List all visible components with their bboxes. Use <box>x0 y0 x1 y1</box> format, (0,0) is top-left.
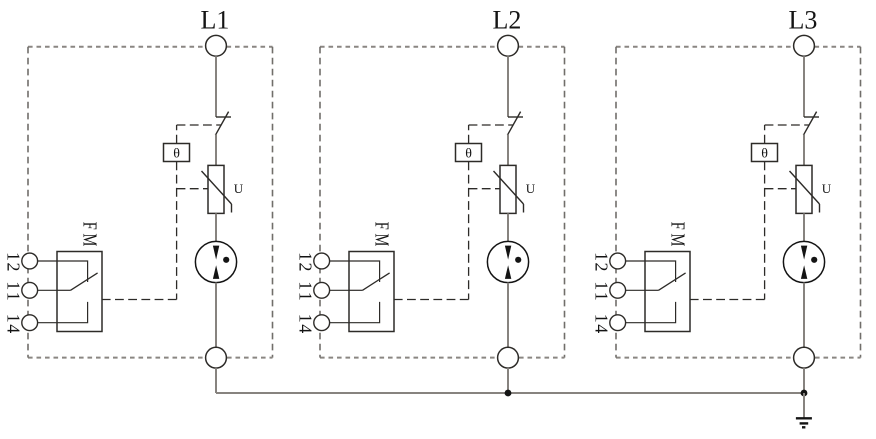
wire (bottom terminal to PE bus) <box>215 368 217 393</box>
svg-text:L2: L2 <box>493 6 522 35</box>
terminal 14 phase 3 <box>610 315 645 331</box>
remote signalling changeover contact FM phase 3 <box>645 252 690 332</box>
wire (bottom terminal to PE bus) <box>507 368 509 393</box>
wire (gas discharge tube to bottom terminal) <box>507 283 509 348</box>
wire (top terminal to disconnector) <box>507 56 509 117</box>
remote signalling changeover contact FM phase 2 <box>349 252 394 332</box>
wire (gas discharge tube to bottom terminal) <box>803 283 805 348</box>
varistor (MOV) phase 1 <box>202 165 232 213</box>
thermal sensing element θ phase 1 <box>164 144 190 162</box>
gas discharge tube (spark gap) phase 3 <box>783 241 824 282</box>
svg-text:11: 11 <box>592 281 612 301</box>
contact 12 fixed terminal (inside FM box) <box>57 261 88 282</box>
svg-text:U: U <box>526 181 536 196</box>
terminal 11 phase 1 <box>22 282 57 298</box>
wire (varistor to gas discharge tube) <box>215 213 217 242</box>
linkage (theta to disconnector, dashed) <box>469 125 514 144</box>
terminal 12 phase 3 <box>610 253 645 269</box>
svg-text:U: U <box>822 181 832 196</box>
svg-text:θ: θ <box>465 147 472 162</box>
linkage (theta to FM contact, dashed) <box>394 162 469 300</box>
linkage (theta to FM contact, dashed) <box>690 162 765 300</box>
contact 12 fixed terminal (inside FM box) <box>645 261 676 282</box>
svg-text:14: 14 <box>4 314 24 334</box>
terminal phase 1 (bottom) <box>206 347 227 368</box>
linkage (theta to disconnector, dashed) <box>177 125 222 144</box>
terminal phase 3 (bottom) <box>794 347 815 368</box>
svg-text:14: 14 <box>592 314 612 334</box>
terminal 12 phase 1 <box>22 253 57 269</box>
gas discharge tube (spark gap) phase 1 <box>195 241 236 282</box>
junction (L3 to PE bus) <box>801 390 808 397</box>
linkage (theta to FM contact, dashed) <box>102 162 177 300</box>
wire (bottom terminal to PE bus) <box>803 368 805 393</box>
svg-text:L3: L3 <box>789 6 818 35</box>
linkage (theta to varistor, dashed) <box>469 188 500 190</box>
varistor (MOV) phase 3 <box>790 165 820 213</box>
linkage (theta to varistor, dashed) <box>177 188 208 190</box>
wire (gas discharge tube to bottom terminal) <box>215 283 217 348</box>
varistor (MOV) phase 2 <box>494 165 524 213</box>
svg-text:U: U <box>234 181 244 196</box>
svg-text:14: 14 <box>296 314 316 334</box>
contact 11 common terminal (inside FM box) <box>57 289 71 291</box>
thermal sensing element θ phase 2 <box>456 144 482 162</box>
wire (top terminal to disconnector) <box>215 56 217 117</box>
contact 14 fixed terminal (inside FM box) <box>645 302 676 323</box>
terminal phase 2 (bottom) <box>498 347 519 368</box>
svg-text:F M: F M <box>371 222 392 247</box>
svg-text:F M: F M <box>79 222 100 247</box>
remote signalling changeover contact FM phase 1 <box>57 252 102 332</box>
terminal 14 phase 2 <box>314 315 349 331</box>
wire (top terminal to disconnector) <box>803 56 805 117</box>
svg-text:L1: L1 <box>201 6 230 35</box>
svg-text:12: 12 <box>592 252 612 272</box>
terminal 14 phase 1 <box>22 315 57 331</box>
terminal 11 phase 2 <box>314 282 349 298</box>
wire (junction to ground) <box>803 393 805 418</box>
svg-text:11: 11 <box>296 281 316 301</box>
svg-text:θ: θ <box>761 147 768 162</box>
wire (varistor to gas discharge tube) <box>507 213 509 242</box>
contact 11 common terminal (inside FM box) <box>645 289 659 291</box>
SPD module enclosure (dashed boundary) phase L1 <box>28 47 273 358</box>
contact 11 common terminal (inside FM box) <box>349 289 363 291</box>
changeover contact blade <box>71 273 98 290</box>
contact 12 fixed terminal (inside FM box) <box>349 261 380 282</box>
wire (disconnector to varistor) <box>507 135 509 166</box>
terminal L2 (top) <box>498 35 519 56</box>
thermal disconnector switch phase 3 <box>803 112 819 136</box>
changeover contact blade <box>363 273 390 290</box>
svg-text:12: 12 <box>296 252 316 272</box>
junction (L2 to PE bus) <box>505 390 512 397</box>
thermal disconnector switch phase 2 <box>507 112 523 136</box>
svg-text:θ: θ <box>173 147 180 162</box>
svg-text:12: 12 <box>4 252 24 272</box>
linkage (theta to disconnector, dashed) <box>765 125 810 144</box>
terminal L1 (top) <box>206 35 227 56</box>
terminal 11 phase 3 <box>610 282 645 298</box>
ground (earth symbol) <box>796 418 812 427</box>
changeover contact blade <box>659 273 686 290</box>
SPD module enclosure (dashed boundary) phase L2 <box>320 47 565 358</box>
gas discharge tube (spark gap) phase 2 <box>487 241 528 282</box>
contact 14 fixed terminal (inside FM box) <box>349 302 380 323</box>
PE bus wire (common earth conductor) <box>216 392 804 394</box>
thermal disconnector switch phase 1 <box>215 112 231 136</box>
wire (varistor to gas discharge tube) <box>803 213 805 242</box>
svg-text:F M: F M <box>667 222 688 247</box>
contact 14 fixed terminal (inside FM box) <box>57 302 88 323</box>
terminal 12 phase 2 <box>314 253 349 269</box>
linkage (theta to varistor, dashed) <box>765 188 796 190</box>
thermal sensing element θ phase 3 <box>752 144 778 162</box>
svg-text:11: 11 <box>4 281 24 301</box>
wire (disconnector to varistor) <box>803 135 805 166</box>
SPD module enclosure (dashed boundary) phase L3 <box>616 47 861 358</box>
terminal L3 (top) <box>794 35 815 56</box>
wire (disconnector to varistor) <box>215 135 217 166</box>
